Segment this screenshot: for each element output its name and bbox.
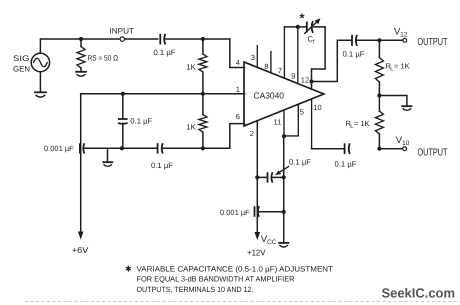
svg-text:4: 4 bbox=[236, 58, 240, 67]
pin 6 label bbox=[236, 112, 240, 121]
svg-text:0.1 µF: 0.1 µF bbox=[154, 48, 176, 57]
svg-text:OUTPUT: OUTPUT bbox=[418, 148, 448, 159]
wire Cf left rail bbox=[284, 26, 306, 28]
node RL2 bottom / V10 bbox=[377, 147, 381, 151]
svg-text:0.1 µF: 0.1 µF bbox=[151, 161, 173, 170]
pin 1 label bbox=[236, 85, 240, 94]
svg-text:12: 12 bbox=[400, 31, 408, 38]
svg-text:9: 9 bbox=[291, 72, 295, 81]
svg-text:SeekIC.com: SeekIC.com bbox=[382, 286, 456, 301]
pin 3 stub bbox=[251, 46, 257, 68]
svg-text:1K: 1K bbox=[186, 123, 196, 132]
wire to output ground bbox=[379, 96, 407, 106]
wire input rail bbox=[81, 38, 158, 40]
capacitor 0.001uF on Vcc line bbox=[220, 206, 259, 217]
svg-text:0.1 µF: 0.1 µF bbox=[130, 117, 152, 126]
OUTPUT label (bottom) bbox=[418, 148, 448, 159]
svg-text:1: 1 bbox=[236, 85, 240, 94]
wire pin11/5 line down to ground bbox=[283, 136, 285, 242]
svg-text:L: L bbox=[350, 124, 353, 130]
svg-text:12: 12 bbox=[301, 76, 309, 85]
wire Cf right to pin 12 jog bbox=[312, 27, 326, 89]
svg-text:0.1 µF: 0.1 µF bbox=[343, 50, 365, 59]
+6V arrow bbox=[72, 232, 89, 256]
resistor 1K (lower) bbox=[186, 94, 207, 149]
ground at output divider bbox=[401, 106, 412, 110]
note text bbox=[125, 264, 333, 294]
pin 8 stub bbox=[264, 52, 271, 73]
svg-text:1K: 1K bbox=[186, 62, 196, 71]
node Cf rail / pin 9 bbox=[296, 25, 300, 29]
svg-text:0.1 µF: 0.1 µF bbox=[289, 157, 311, 166]
wire sig-gen bottom to ground bbox=[39, 72, 41, 92]
svg-text:+12V: +12V bbox=[247, 248, 266, 258]
svg-text:L: L bbox=[390, 67, 393, 73]
svg-text:CC: CC bbox=[267, 239, 277, 246]
INPUT terminal node bbox=[110, 26, 135, 41]
node 0.1uF left bbox=[255, 175, 259, 179]
node 1K lower bottom bbox=[201, 146, 205, 150]
wire cap to V12 terminal bbox=[357, 39, 403, 41]
ground at pin11/5 line bbox=[278, 243, 289, 247]
svg-text:6: 6 bbox=[236, 112, 240, 121]
capacitor 0.1uF V10 output bbox=[335, 143, 357, 168]
node bypass branch bottom bbox=[120, 146, 124, 150]
resistor RS = 50 ohm bbox=[77, 39, 118, 71]
pin 11 wire bbox=[274, 110, 285, 136]
node pin 12 junction bbox=[301, 76, 314, 85]
svg-text:✱: ✱ bbox=[125, 265, 132, 274]
svg-text:FOR EQUAL 3-dB BANDWIDTH AT AM: FOR EQUAL 3-dB BANDWIDTH AT AMPLIFIER bbox=[137, 275, 296, 284]
resistor RL = 1K (lower) bbox=[346, 96, 384, 149]
svg-text:10: 10 bbox=[402, 140, 410, 147]
pin 2 wire down to Vcc bbox=[250, 121, 257, 232]
svg-text:11: 11 bbox=[274, 118, 282, 127]
op-amp U1 CA3040 bbox=[244, 62, 324, 126]
svg-text:3: 3 bbox=[251, 53, 255, 62]
node mid rail / bypass cap branch bbox=[121, 92, 125, 96]
scan artifact dashed line bbox=[25, 301, 460, 303]
ground under sig gen bbox=[34, 92, 47, 97]
wire sig-gen top to input rail bbox=[40, 39, 81, 53]
wire +6V rail down bbox=[80, 94, 82, 232]
capacitor 0.1uF between Vcc line and ground line bbox=[257, 172, 283, 182]
variable capacitor Cf bbox=[300, 11, 321, 46]
capacitor 0.1uF input coupling bbox=[154, 34, 176, 57]
svg-text:OUTPUTS, TERMINALS 10 AND 12.: OUTPUTS, TERMINALS 10 AND 12. bbox=[137, 285, 254, 294]
capacitor 0.1uF V12 output bbox=[343, 35, 365, 59]
svg-text:0.1 µF: 0.1 µF bbox=[335, 159, 357, 168]
wire input cap to pin4 corner bbox=[165, 38, 230, 40]
pin 9 wire up to Cf rail bbox=[291, 27, 298, 84]
Vcc arrow bbox=[247, 232, 277, 258]
svg-text:5: 5 bbox=[300, 107, 304, 116]
resistor 1K (upper) bbox=[186, 39, 207, 94]
wire pin 12 to V12 coupling cap bbox=[312, 40, 352, 81]
node decoupling cap right bbox=[282, 175, 286, 179]
wire 0.001uF to ground line bbox=[259, 211, 284, 213]
svg-text:INPUT: INPUT bbox=[110, 26, 135, 35]
svg-text:7: 7 bbox=[278, 66, 282, 75]
svg-text:VARIABLE CAPACITANCE (0.5-1.0: VARIABLE CAPACITANCE (0.5-1.0 µF) ADJUST… bbox=[137, 264, 334, 273]
wire pin 4 jog bbox=[230, 39, 245, 68]
capacitor 0.1uF vertical bypass branch bbox=[118, 94, 153, 149]
pin 7 wire up to Cf rail bbox=[278, 27, 285, 78]
svg-text:CA3040: CA3040 bbox=[254, 91, 285, 101]
terminal V10 bbox=[396, 135, 410, 151]
node A (input rail / RS junction) bbox=[79, 37, 83, 41]
svg-text:8: 8 bbox=[264, 62, 268, 71]
wire +6V corner / mid rail to pin 1 bbox=[81, 93, 245, 95]
OUTPUT label (top) bbox=[418, 37, 448, 48]
node 0.001uF right bbox=[282, 210, 286, 214]
svg-text:0.001 µF: 0.001 µF bbox=[220, 208, 250, 217]
svg-text:RS = 50 Ω: RS = 50 Ω bbox=[88, 53, 119, 62]
wire pin 6 jog bbox=[203, 124, 245, 149]
node RL1 top bbox=[377, 38, 381, 42]
node input rail / 1K top bbox=[201, 37, 205, 41]
svg-text:2: 2 bbox=[250, 129, 254, 138]
wire V10 cap to pin 10 bbox=[312, 148, 345, 150]
node RL1 bottom bbox=[377, 93, 381, 97]
capacitor 0.1uF series lower rail bbox=[151, 143, 173, 170]
ground on lower-left rail bbox=[102, 148, 113, 166]
node pin 5/11 junction bbox=[282, 134, 286, 138]
svg-text:+6V: +6V bbox=[72, 245, 89, 255]
svg-text:10: 10 bbox=[313, 103, 321, 112]
svg-text:= 1K: = 1K bbox=[394, 62, 410, 71]
node 1K bottom / mid rail bbox=[201, 92, 205, 96]
svg-text:0.001 µF: 0.001 µF bbox=[44, 144, 74, 153]
ground under RS bbox=[75, 72, 87, 76]
svg-text:SIG: SIG bbox=[13, 54, 30, 63]
svg-text:OUTPUT: OUTPUT bbox=[418, 37, 448, 48]
signal generator SIG GEN bbox=[13, 53, 50, 73]
wire node to V10 terminal bbox=[379, 148, 402, 150]
wire lower-left ground rail bbox=[84, 147, 156, 149]
svg-text:= 1K: = 1K bbox=[354, 119, 370, 128]
svg-text:GEN: GEN bbox=[13, 65, 30, 74]
pin 10 wire bbox=[312, 99, 322, 149]
terminal V12 bbox=[394, 26, 408, 42]
capacitor 0.001uF (+6V bypass) bbox=[44, 143, 84, 153]
SeekIC.com logo bbox=[382, 286, 456, 301]
resistor RL = 1K (upper) bbox=[375, 40, 409, 95]
label 0.1uF with arrow bbox=[275, 157, 311, 175]
wire lower rail cap to 1K bottom node bbox=[163, 147, 203, 149]
pin 4 label bbox=[236, 58, 240, 67]
pin 5 wire jog bbox=[284, 104, 304, 136]
